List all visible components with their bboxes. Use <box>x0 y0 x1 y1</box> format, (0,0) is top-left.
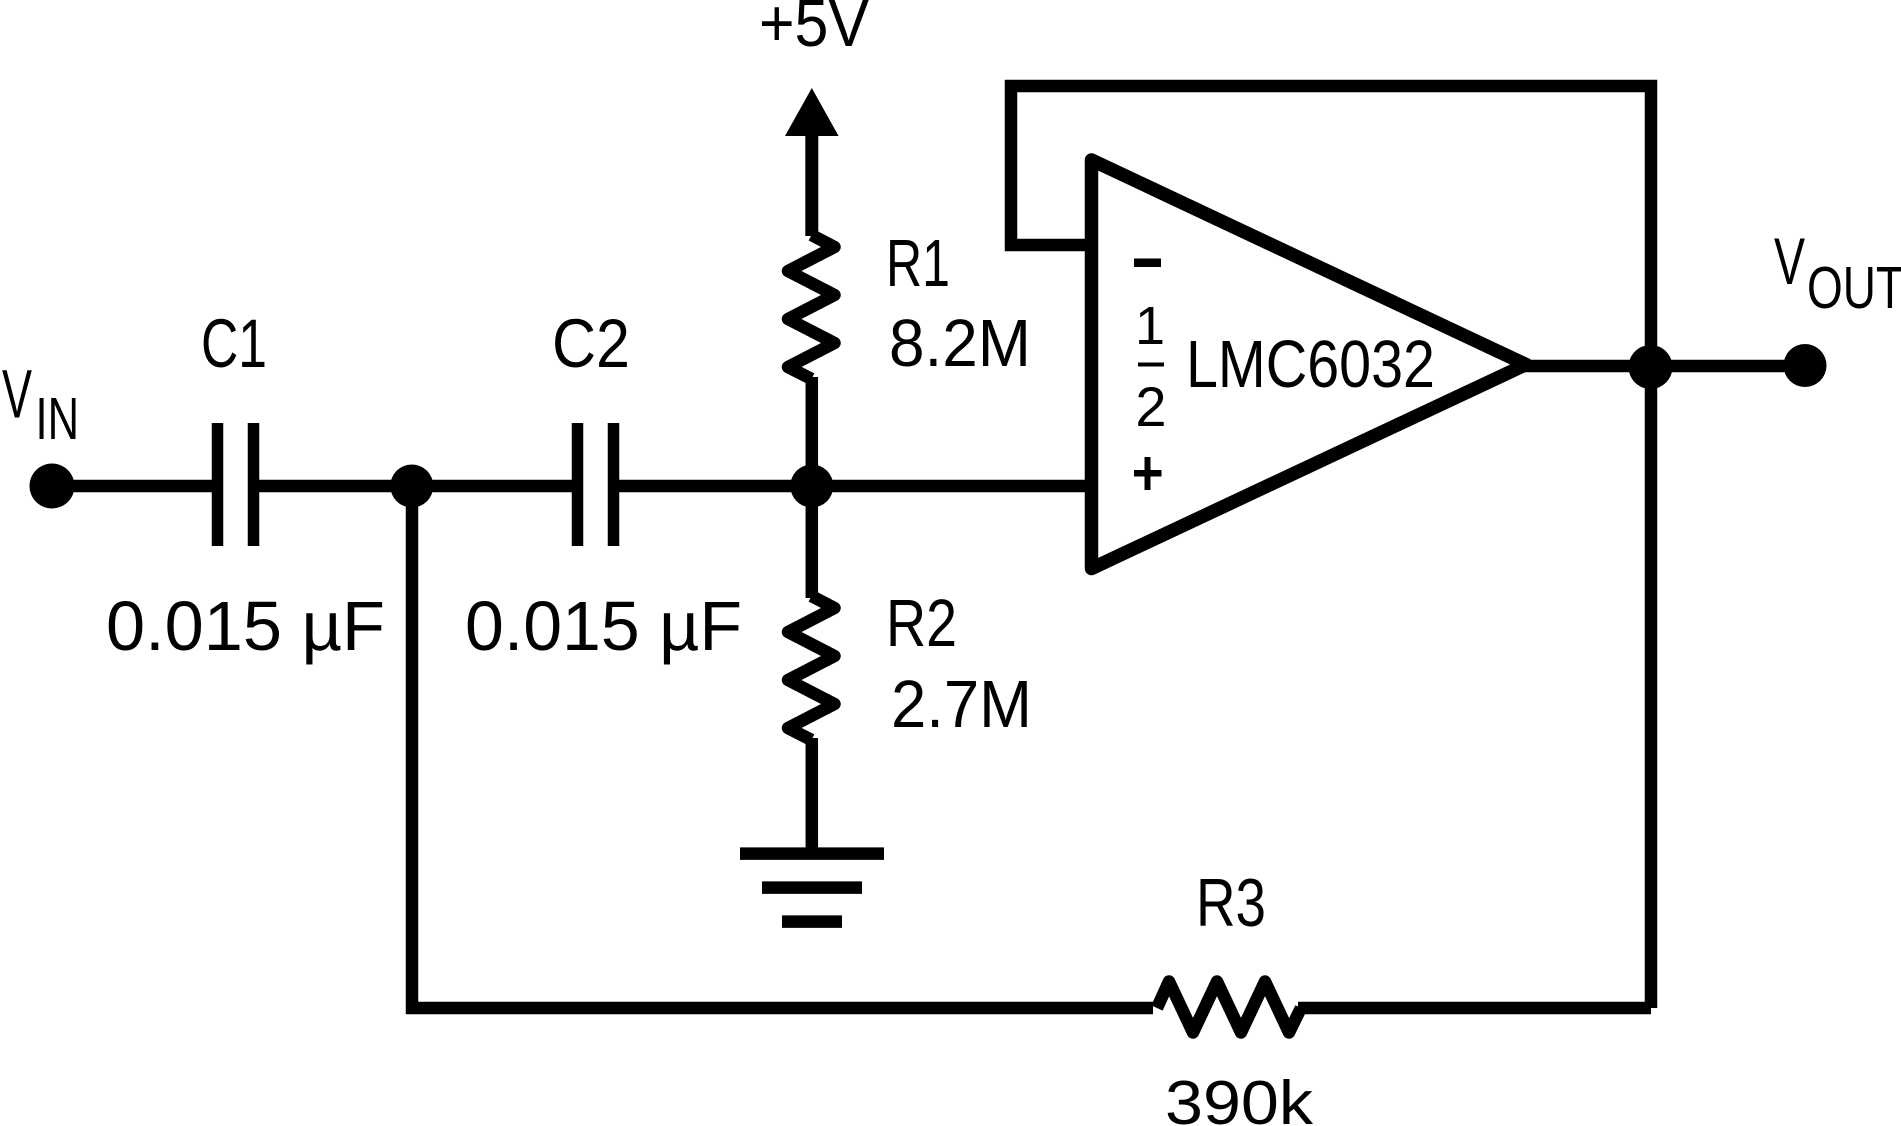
svg-text:390k: 390k <box>1165 1069 1314 1126</box>
wire node B to R2 <box>806 486 819 598</box>
svg-text:LMC6032: LMC6032 <box>1186 327 1435 402</box>
capacitor C1 <box>218 423 254 546</box>
wire R1 to node B <box>806 377 819 486</box>
op-amp U1 <box>1092 160 1527 569</box>
wire VIN to C1 <box>52 480 212 493</box>
svg-text:R1: R1 <box>886 226 950 301</box>
svg-text:2: 2 <box>1135 375 1166 438</box>
wire C2 to op-amp noninverting input <box>619 480 1092 493</box>
resistor R3 <box>1157 982 1301 1033</box>
op-amp U1 noninverting input plus sign <box>1134 457 1162 490</box>
power +5V arrow <box>785 88 839 236</box>
svg-text:C2: C2 <box>552 305 630 382</box>
wire node A down to bottom rail <box>412 486 1153 1008</box>
node B junction dot <box>790 465 833 508</box>
svg-text:R3: R3 <box>1196 865 1266 941</box>
svg-text:R2: R2 <box>886 586 957 661</box>
wire feedback: inverting input to top rail to output rail <box>1011 86 1651 1008</box>
svg-text:0.015 µF: 0.015 µF <box>465 587 742 665</box>
svg-text:V: V <box>1774 224 1805 298</box>
op-amp U1 half fraction 1/2 <box>1135 296 1167 438</box>
svg-text:8.2M: 8.2M <box>889 306 1031 381</box>
svg-text:IN: IN <box>36 386 80 452</box>
op-amp U1 inverting input minus sign <box>1134 259 1161 268</box>
wire R2 to ground <box>806 738 819 854</box>
node VOUT terminal dot <box>1784 344 1827 387</box>
svg-text:C1: C1 <box>201 305 267 382</box>
svg-text:OUT: OUT <box>1807 255 1901 321</box>
svg-text:V: V <box>2 356 32 433</box>
capacitor C2 <box>578 423 614 546</box>
resistor R1 <box>788 235 835 379</box>
ground <box>740 854 884 922</box>
svg-text:2.7M: 2.7M <box>891 667 1032 742</box>
node VIN terminal dot <box>30 464 75 509</box>
wire C1 to C2 through node A <box>259 480 572 493</box>
svg-text:+5V: +5V <box>759 0 869 61</box>
svg-text:1: 1 <box>1135 296 1165 356</box>
label VOUT <box>1774 224 1901 321</box>
node output junction dot <box>1629 345 1673 389</box>
label VIN <box>2 356 79 453</box>
wire R3 to output rail <box>1298 1002 1651 1015</box>
node A junction dot <box>390 465 433 508</box>
resistor R2 <box>788 596 835 740</box>
svg-text:0.015 µF: 0.015 µF <box>106 587 385 665</box>
wire op-amp output to VOUT <box>1524 360 1805 373</box>
